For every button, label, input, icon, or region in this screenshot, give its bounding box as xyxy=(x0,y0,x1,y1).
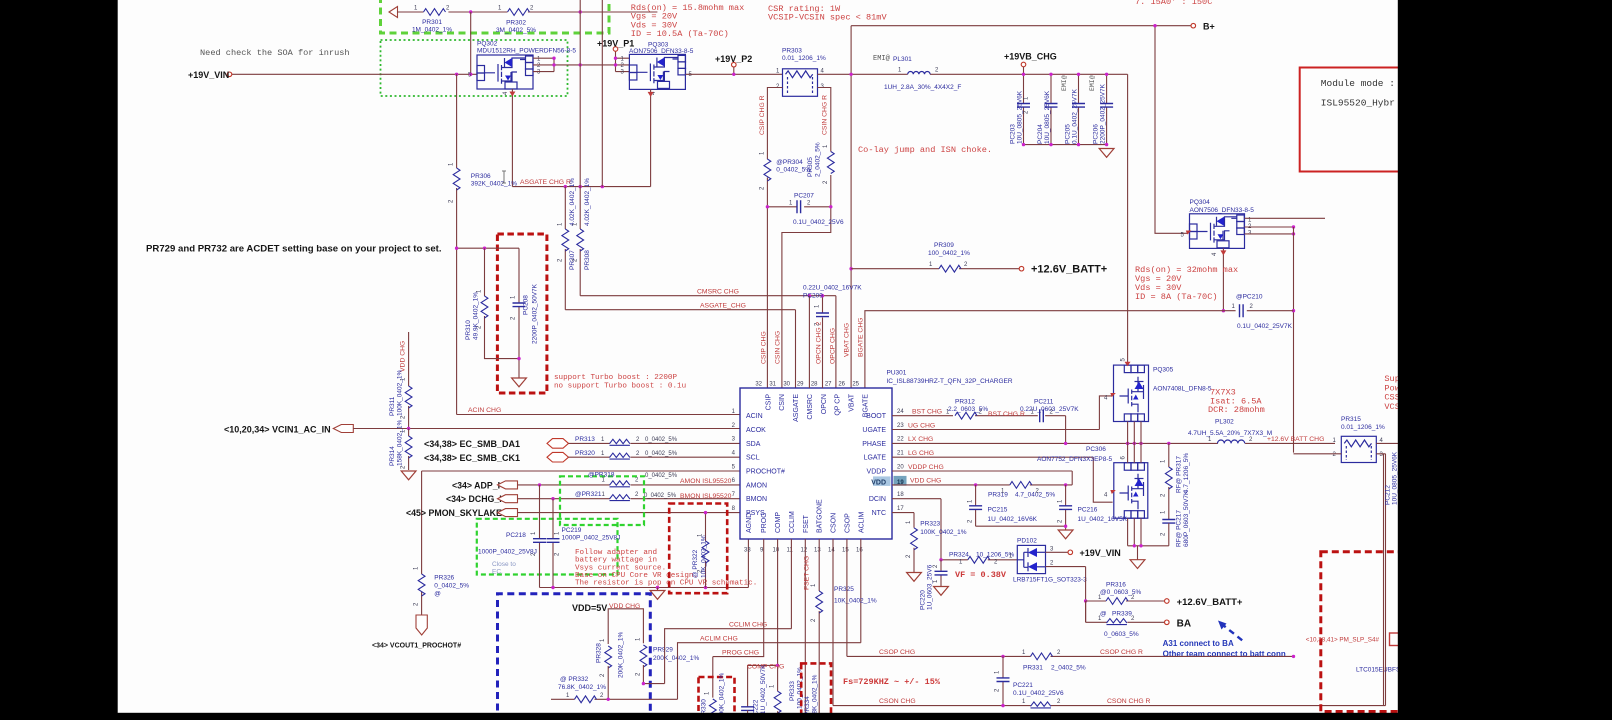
svg-text:680P_0603_50V7K: 680P_0603_50V7K xyxy=(1183,490,1190,547)
svg-text:PC212: PC212 xyxy=(1385,485,1392,505)
svg-text:PC216: PC216 xyxy=(1078,507,1098,514)
wire PQ302 right bus to PQ303 xyxy=(533,49,629,72)
wires PQ306 top pins xyxy=(1128,443,1141,462)
wire vertical from top dot to VIN wire xyxy=(470,12,472,74)
resistor PR319 AMON xyxy=(588,471,732,487)
wire CSIN sense xyxy=(782,88,831,389)
transistor PQ303 xyxy=(621,42,694,96)
svg-text:PR303: PR303 xyxy=(782,48,802,55)
svg-text:RF@ PC217: RF@ PC217 xyxy=(1176,510,1183,547)
svg-text:PR326: PR326 xyxy=(434,575,454,582)
wires PQ306 bottom pins + rail xyxy=(1128,518,1169,560)
wire VBAT vertical x851 xyxy=(850,26,852,388)
svg-text:ACOK: ACOK xyxy=(746,427,766,434)
wire CSON vertical xyxy=(832,539,834,706)
svg-text:1000P_0402_25V8J: 1000P_0402_25V8J xyxy=(562,535,621,542)
svg-text:23: 23 xyxy=(897,423,904,429)
svg-text:PR333: PR333 xyxy=(789,681,796,701)
svg-text:+12.6V_BATT+: +12.6V_BATT+ xyxy=(1177,597,1243,608)
svg-text:<34> VCOUT1_PROCHOT#: <34> VCOUT1_PROCHOT# xyxy=(372,643,461,650)
svg-text:0.1U_0402_25V7K: 0.1U_0402_25V7K xyxy=(1072,88,1079,144)
red dashed box PR330 xyxy=(699,677,735,720)
transistor PQ304 xyxy=(1181,199,1255,256)
capacitor PC204 xyxy=(1037,73,1058,145)
svg-text:SDA: SDA xyxy=(746,441,761,448)
svg-text:EMI@: EMI@ xyxy=(1061,75,1068,91)
svg-text:BATGONE: BATGONE xyxy=(817,499,824,533)
svg-text:@ PR322: @ PR322 xyxy=(692,549,699,578)
svg-text:4.02K_0402_1%: 4.02K_0402_1% xyxy=(584,178,591,226)
svg-text:2_0402_5%: 2_0402_5% xyxy=(815,142,822,177)
svg-text:VDD=5V: VDD=5V xyxy=(572,603,607,613)
svg-text:13: 13 xyxy=(814,548,821,554)
svg-text:CMSRC CHG: CMSRC CHG xyxy=(697,289,739,296)
cap bank bottom rail + ground xyxy=(1024,144,1107,146)
resistor PR324 xyxy=(939,552,1017,566)
svg-text:Co-lay jump and ISN choke.: Co-lay jump and ISN choke. xyxy=(858,145,992,155)
green dotted box PQ302 xyxy=(381,40,568,96)
svg-text:10K_0402_1%: 10K_0402_1% xyxy=(834,598,877,605)
svg-text:PR929: PR929 xyxy=(653,647,673,654)
resistor PR321 BMON xyxy=(575,491,732,500)
svg-text:CCLIM: CCLIM xyxy=(789,511,796,533)
svg-text:AON7408L_DFN8-5: AON7408L_DFN8-5 xyxy=(1153,386,1212,393)
wires PQ304 right pins xyxy=(1245,218,1326,234)
resistor PR328 xyxy=(596,632,625,700)
svg-text:ASGATE CHG R: ASGATE CHG R xyxy=(520,179,571,186)
svg-text:200K_0402_1%: 200K_0402_1% xyxy=(618,632,625,678)
svg-text:PR313: PR313 xyxy=(575,436,595,443)
wire CSOP CHG row xyxy=(847,655,1294,657)
green dashed box top (inrush) xyxy=(381,0,610,33)
svg-text:PR319: PR319 xyxy=(988,491,1008,498)
svg-text:PR315: PR315 xyxy=(1341,416,1361,423)
svg-text:LG CHG: LG CHG xyxy=(908,450,934,457)
junction dots VIN wire xyxy=(455,73,458,76)
svg-text:EMI@: EMI@ xyxy=(1089,75,1096,91)
resistor PR323 xyxy=(906,520,967,558)
svg-text:LGATE: LGATE xyxy=(864,455,887,462)
svg-text:ACIN: ACIN xyxy=(746,413,763,420)
svg-text:10U_0805_25V6K: 10U_0805_25V6K xyxy=(1392,451,1399,505)
wire PR315 pin2 to sense xyxy=(1294,453,1342,455)
svg-text:21: 21 xyxy=(897,451,904,457)
svg-text:PR729 and PR732 are ACDET sett: PR729 and PR732 are ACDET setting base o… xyxy=(146,244,442,255)
resistor PR310 xyxy=(465,248,519,358)
svg-text:PR308: PR308 xyxy=(584,250,591,270)
wire PQ304 gate down xyxy=(1222,248,1224,310)
svg-text:QP CP: QP CP xyxy=(835,394,842,416)
svg-text:33: 33 xyxy=(744,548,751,554)
resistor PR333 xyxy=(770,667,804,720)
svg-text:SCL: SCL xyxy=(746,455,760,462)
resistor PR314 xyxy=(389,420,412,470)
svg-text:@: @ xyxy=(434,591,441,598)
svg-text:<34> DCHG_I: <34> DCHG_I xyxy=(446,494,502,504)
svg-text:PC203: PC203 xyxy=(1010,124,1017,144)
wire CSON CHG row xyxy=(833,705,1386,707)
wire PR315 pin4 out xyxy=(1376,442,1412,444)
svg-text:PR301: PR301 xyxy=(422,19,442,26)
capacitor PC205 xyxy=(1061,73,1085,145)
svg-text:CSIN CHG: CSIN CHG xyxy=(775,331,782,364)
svg-text:VDD CHG: VDD CHG xyxy=(910,478,941,485)
svg-text:PC207: PC207 xyxy=(794,193,814,200)
svg-text:AON7752_DFN3X3EP8-5: AON7752_DFN3X3EP8-5 xyxy=(1037,456,1113,463)
svg-text:CSIP CHG R: CSIP CHG R xyxy=(759,95,766,135)
svg-text:PR320: PR320 xyxy=(575,450,595,457)
svg-text:2200P_0402_25V7K: 2200P_0402_25V7K xyxy=(1100,83,1107,144)
sense resistor PR315 xyxy=(1333,416,1385,463)
svg-text:2_0402_5%: 2_0402_5% xyxy=(1051,665,1086,672)
svg-text:PC215: PC215 xyxy=(988,507,1008,514)
svg-text:RF@ PR317: RF@ PR317 xyxy=(1176,456,1183,493)
svg-text:0_0402_5%: 0_0402_5% xyxy=(434,583,469,590)
svg-text:ACLIM CHG: ACLIM CHG xyxy=(700,636,738,643)
svg-text:B+: B+ xyxy=(1203,22,1215,32)
svg-text:PR316: PR316 xyxy=(1106,582,1126,589)
svg-text:1U_0603_25V6: 1U_0603_25V6 xyxy=(927,564,934,610)
svg-text:0_0402_5%: 0_0402_5% xyxy=(645,473,678,479)
svg-text:OPCN CHG 2: OPCN CHG 2 xyxy=(816,321,823,364)
svg-text:49.9K_0402_1%: 49.9K_0402_1% xyxy=(473,292,480,340)
svg-text:1U_0402_16V6K: 1U_0402_16V6K xyxy=(988,516,1038,523)
ground in red box xyxy=(512,378,527,387)
svg-text:PC209: PC209 xyxy=(803,293,823,300)
svg-text:PC211: PC211 xyxy=(1034,399,1054,406)
wire DCIN row xyxy=(892,499,941,560)
wire COMP chain xyxy=(748,539,778,707)
resistor PR322 xyxy=(692,511,709,588)
svg-text:6.8K_0402_1%: 6.8K_0402_1% xyxy=(812,674,819,719)
junction dots top wire xyxy=(469,10,472,13)
wire PROG chain xyxy=(713,539,764,698)
svg-text:PL302: PL302 xyxy=(1215,419,1234,426)
svg-text:AMON: AMON xyxy=(746,482,767,489)
svg-text:ISL95520_Hybr: ISL95520_Hybr xyxy=(1321,98,1395,109)
capacitor PC216 xyxy=(1058,485,1128,526)
svg-text:0_0603_5%: 0_0603_5% xyxy=(1104,631,1139,638)
transistor PQ306 xyxy=(1037,456,1148,519)
inductor PL302 xyxy=(1188,419,1272,444)
svg-text:32: 32 xyxy=(755,382,762,388)
red dashed box PR310/PC208 xyxy=(497,234,547,393)
wire PROCHOT# xyxy=(422,470,740,472)
svg-text:ID = 8A (Ta-70C): ID = 8A (Ta-70C) xyxy=(1135,292,1218,302)
svg-text:Fs=729KHZ ~ +/- 15%: Fs=729KHZ ~ +/- 15% xyxy=(843,677,941,687)
wire CMSRC CHG xyxy=(580,296,836,388)
capacitor PC217 xyxy=(1161,490,1191,547)
ground rail AGND xyxy=(540,539,749,588)
capacitor PC209 xyxy=(803,285,862,389)
node VCIN1_AC_IN xyxy=(333,425,353,433)
capacitor PC222 xyxy=(741,664,767,720)
blue dashed box VDD=5V xyxy=(498,594,651,720)
svg-text:<34,38> EC_SMB_CK1: <34,38> EC_SMB_CK1 xyxy=(424,453,520,463)
resistor PR331 xyxy=(1022,650,1086,672)
svg-text:27: 27 xyxy=(825,382,832,388)
svg-text:<45> PMON_SKYLAKE: <45> PMON_SKYLAKE xyxy=(406,508,502,518)
svg-text:PC221: PC221 xyxy=(1013,682,1033,689)
svg-text:@PC210: @PC210 xyxy=(1236,294,1263,301)
node +19VB_CHG xyxy=(1021,62,1026,67)
svg-text:0.1U_0402_25V7K: 0.1U_0402_25V7K xyxy=(1237,323,1293,330)
svg-text:392K_0402_1%: 392K_0402_1% xyxy=(471,181,517,188)
svg-text:4.7UH_5.5A_20%_7X7X3_M: 4.7UH_5.5A_20%_7X7X3_M xyxy=(1188,430,1272,437)
svg-text:PR306: PR306 xyxy=(471,173,491,180)
svg-text:CSON CHG: CSON CHG xyxy=(879,698,916,705)
svg-text:100_0402_1%: 100_0402_1% xyxy=(928,250,970,257)
svg-text:+19VB_CHG: +19VB_CHG xyxy=(1004,52,1057,62)
svg-text:VDD: VDD xyxy=(871,479,886,486)
svg-text:1000P_0402_25V8J: 1000P_0402_25V8J xyxy=(478,549,537,556)
svg-text:@0_0603_5%: @0_0603_5% xyxy=(1100,589,1142,596)
svg-text:1U_0402_16V5K: 1U_0402_16V5K xyxy=(1078,516,1128,523)
svg-text:PR314: PR314 xyxy=(389,446,396,466)
resistor PR336 xyxy=(1022,699,1072,719)
svg-text:CSIP CHG: CSIP CHG xyxy=(761,331,768,364)
svg-text:BMON: BMON xyxy=(746,496,767,503)
resistor PR317 xyxy=(1161,443,1191,519)
wire UGATE row xyxy=(892,396,1113,430)
resistor PR302 xyxy=(496,6,536,35)
resistor PR312 xyxy=(912,399,988,420)
svg-text:+19V_VIN: +19V_VIN xyxy=(188,70,229,80)
svg-text:CSOP: CSOP xyxy=(844,513,851,533)
svg-text:25: 25 xyxy=(852,382,859,388)
svg-text:PQ302: PQ302 xyxy=(477,41,498,48)
wire top PR301/PR302 xyxy=(397,11,657,13)
svg-text:PC205: PC205 xyxy=(1065,124,1072,144)
wire vertical x602 from top xyxy=(601,0,603,187)
node +19V_VIN right xyxy=(1046,551,1069,553)
svg-text:PR331: PR331 xyxy=(1023,665,1043,672)
svg-text:CSIN CHG R: CSIN CHG R xyxy=(822,95,829,135)
resistor PR311 xyxy=(389,332,412,429)
svg-text:DCIN: DCIN xyxy=(869,496,886,503)
svg-text:VDD CHG: VDD CHG xyxy=(400,341,407,372)
svg-text:CCLIM CHG: CCLIM CHG xyxy=(729,622,767,629)
svg-text:2200P_0402_50V7K: 2200P_0402_50V7K xyxy=(532,283,539,344)
wire VDD row xyxy=(892,484,1072,486)
svg-text:Close to: Close to xyxy=(492,561,516,568)
svg-text:31: 31 xyxy=(769,382,776,388)
svg-text:16: 16 xyxy=(856,548,863,554)
svg-text:BST CHG: BST CHG xyxy=(912,409,942,416)
wire CSIP sense xyxy=(767,88,782,389)
input arrow top left xyxy=(389,7,398,18)
capacitor PC206 xyxy=(1089,73,1113,145)
wire PHASE/LX row xyxy=(892,442,1335,444)
resistor PR326 xyxy=(414,471,470,615)
svg-text:0_0402_5%: 0_0402_5% xyxy=(776,167,811,174)
svg-text:NTC: NTC xyxy=(872,510,886,517)
wire PQ303 pin5 to PR303 xyxy=(686,73,783,75)
svg-text:PHASE: PHASE xyxy=(862,441,886,448)
resistor PR330 xyxy=(701,673,726,720)
resistor PR339 xyxy=(1086,601,1165,638)
capacitor PC220 xyxy=(920,560,948,610)
svg-text:20: 20 xyxy=(897,464,904,470)
svg-text:0_0402_5%: 0_0402_5% xyxy=(644,493,677,499)
ground symbol rail xyxy=(657,588,659,591)
svg-text:PD102: PD102 xyxy=(1017,538,1037,545)
resistor PR332 xyxy=(551,676,678,703)
svg-text:A31 connect to BA: A31 connect to BA xyxy=(1163,639,1234,648)
svg-text:@ PR332: @ PR332 xyxy=(560,676,589,683)
resistor PR301 xyxy=(412,6,452,34)
wire NTC row xyxy=(892,513,914,573)
svg-text:EC.: EC. xyxy=(492,569,503,576)
svg-text:<34> ADP_I: <34> ADP_I xyxy=(452,480,500,490)
svg-text:LRB715FT1G_SOT323-3: LRB715FT1G_SOT323-3 xyxy=(1013,577,1087,584)
svg-text:VDDP CHG: VDDP CHG xyxy=(908,464,944,471)
node +19V_VIN xyxy=(227,72,232,77)
capacitor PC211 xyxy=(988,399,1079,423)
svg-text:PL301: PL301 xyxy=(893,56,912,63)
svg-text:0.01_1206_1%: 0.01_1206_1% xyxy=(782,55,826,62)
svg-text:CSON: CSON xyxy=(831,513,838,533)
wire CSOP vertical xyxy=(846,539,848,656)
svg-text:UGATE: UGATE xyxy=(862,427,886,434)
resistor PR319b 4.7 xyxy=(988,482,1055,499)
svg-text:0.1U_0402_50V7K: 0.1U_0402_50V7K xyxy=(760,664,767,720)
svg-text:BGATE CHG: BGATE CHG xyxy=(858,317,865,357)
wire BATGONE + resistor PR325 xyxy=(818,539,820,720)
svg-text:<10,20,34> VCIN1_AC_IN: <10,20,34> VCIN1_AC_IN xyxy=(224,425,331,435)
node +12.6V_BATT+ xyxy=(1019,266,1024,271)
cap rail + ground xyxy=(976,526,1066,530)
inductor PL301 xyxy=(873,55,961,91)
svg-text:LX CHG: LX CHG xyxy=(908,436,933,443)
resistor PR308 xyxy=(573,0,592,296)
svg-text:30: 30 xyxy=(783,382,790,388)
svg-text:76.8K_0402_1%: 76.8K_0402_1% xyxy=(558,684,606,691)
svg-text:no support Turbo boost : 0.1u: no support Turbo boost : 0.1u xyxy=(554,383,686,391)
wire BOOT/BST row xyxy=(892,416,1066,444)
wire ACIN branch xyxy=(457,248,740,414)
letterbox bars xyxy=(0,0,118,720)
svg-text:+19V_P2: +19V_P2 xyxy=(715,54,752,64)
svg-text:VF = 0.38V: VF = 0.38V xyxy=(955,570,1007,580)
svg-text:PU301: PU301 xyxy=(887,370,907,377)
resistor PR306 xyxy=(449,74,518,248)
svg-text:200K_0402_1%: 200K_0402_1% xyxy=(653,655,699,662)
sense resistor PR303 xyxy=(776,48,826,97)
svg-text:0.1U_0402_25V6: 0.1U_0402_25V6 xyxy=(793,219,844,226)
capacitor PC219 xyxy=(547,499,621,588)
node +19V_P1 xyxy=(613,47,618,52)
svg-text:BA: BA xyxy=(1177,618,1191,629)
svg-text:VBAT: VBAT xyxy=(849,393,856,411)
svg-text:AMON ISL95520: AMON ISL95520 xyxy=(680,478,732,485)
svg-text:10K_0402_1%: 10K_0402_1% xyxy=(701,535,708,578)
svg-text:ID = 10.5A (Ta-70C): ID = 10.5A (Ta-70C) xyxy=(631,29,729,39)
ground below PR314 xyxy=(401,471,416,480)
svg-text:BMON ISL95520: BMON ISL95520 xyxy=(680,493,732,500)
svg-text:VBAT CHG: VBAT CHG xyxy=(844,323,851,357)
svg-text:1M_0402_1%: 1M_0402_1% xyxy=(412,27,452,34)
resistor PR309 xyxy=(851,242,1019,272)
svg-text:10U_0805_25V6K: 10U_0805_25V6K xyxy=(1017,90,1024,144)
svg-text:FSET CHG: FSET CHG xyxy=(804,556,811,590)
svg-text:CSIN: CSIN xyxy=(779,394,786,411)
wire PD102 pin2 down xyxy=(1046,567,1086,623)
svg-text:ACLIM: ACLIM xyxy=(858,511,865,533)
wire LGATE row xyxy=(892,457,1113,502)
svg-text:@PR304: @PR304 xyxy=(776,159,803,166)
svg-text:0.1U_0402_25V6: 0.1U_0402_25V6 xyxy=(1013,690,1064,697)
wire PR315 pin3 to CSON vertical xyxy=(1376,454,1385,706)
svg-text:3M_0402_5%: 3M_0402_5% xyxy=(496,27,536,34)
capacitor PC203 xyxy=(1010,73,1031,145)
svg-text:VDDP: VDDP xyxy=(867,469,887,476)
wire +19V_VIN xyxy=(232,73,477,75)
svg-text:ACIN CHG: ACIN CHG xyxy=(468,407,501,414)
svg-text:PC206: PC206 xyxy=(1093,124,1100,144)
svg-text:COMP: COMP xyxy=(775,512,782,533)
svg-text:PR328: PR328 xyxy=(596,643,603,663)
svg-text:PR302: PR302 xyxy=(506,20,526,27)
red module box xyxy=(1300,68,1405,172)
svg-text:28: 28 xyxy=(811,382,818,388)
svg-text:ASGATE: ASGATE xyxy=(793,394,800,422)
wires PQ305 bottom pins to LX xyxy=(1128,422,1141,444)
capacitor PC210 xyxy=(1232,294,1293,331)
svg-text:Need check the SOA for inrush: Need check the SOA for inrush xyxy=(200,48,350,58)
wire BGATE CHG xyxy=(865,311,1294,388)
svg-text:<10,38,41> PM_SLP_S4#: <10,38,41> PM_SLP_S4# xyxy=(1306,637,1380,644)
wire ASGATE CHG R xyxy=(512,89,650,187)
svg-text:100K_0402_1%: 100K_0402_1% xyxy=(397,370,404,416)
svg-text:VCSIP-VCSIN spec < 81mV: VCSIP-VCSIN spec < 81mV xyxy=(768,13,887,23)
svg-text:AGND: AGND xyxy=(746,513,753,533)
transistor PQ302 xyxy=(468,41,576,96)
wire FSET xyxy=(804,539,806,720)
capacitor PC221 xyxy=(995,656,1064,705)
svg-text:OPCN: OPCN xyxy=(821,394,828,414)
svg-text:PR309: PR309 xyxy=(934,242,954,249)
svg-text:PR311: PR311 xyxy=(389,396,396,416)
svg-text:<34,38> EC_SMB_DA1: <34,38> EC_SMB_DA1 xyxy=(424,439,520,449)
svg-text:support Turbo boost : 2200P: support Turbo boost : 2200P xyxy=(554,374,677,382)
resistor PR307 xyxy=(558,178,577,310)
svg-text:PC204: PC204 xyxy=(1037,124,1044,144)
svg-text:OPCP CHG: OPCP CHG xyxy=(830,328,837,364)
svg-text:DCR: 28mohm: DCR: 28mohm xyxy=(1208,405,1265,415)
svg-text:PQ305: PQ305 xyxy=(1153,367,1174,374)
small component box right edge xyxy=(1390,633,1406,646)
svg-text:PR323: PR323 xyxy=(920,521,940,528)
node +19V_P2 xyxy=(732,62,737,67)
green dashed box AMON/BMON xyxy=(560,476,644,525)
wire +19VB down to PQ305 xyxy=(1127,74,1129,364)
svg-text:ASGATE_CHG: ASGATE_CHG xyxy=(700,303,746,310)
svg-text:PR339: PR339 xyxy=(1112,611,1132,618)
svg-text:CSOP CHG R: CSOP CHG R xyxy=(1100,649,1143,656)
svg-text:MDU1512RH_POWERDFN56-8-5: MDU1512RH_POWERDFN56-8-5 xyxy=(477,48,576,55)
svg-text:PROG CHG: PROG CHG xyxy=(722,650,759,657)
svg-text:BGATE: BGATE xyxy=(862,394,869,418)
svg-text:PROG: PROG xyxy=(761,512,768,533)
svg-text:15: 15 xyxy=(842,548,849,554)
wire VDDP row xyxy=(892,471,1072,485)
transistor PQ305 xyxy=(1104,358,1212,422)
wire ASGATE_CHG xyxy=(565,310,795,388)
capacitor PC215 xyxy=(968,485,1038,526)
svg-text:AON7506_DFN33-8-5: AON7506_DFN33-8-5 xyxy=(1190,207,1255,214)
svg-text:12: 12 xyxy=(801,548,808,554)
